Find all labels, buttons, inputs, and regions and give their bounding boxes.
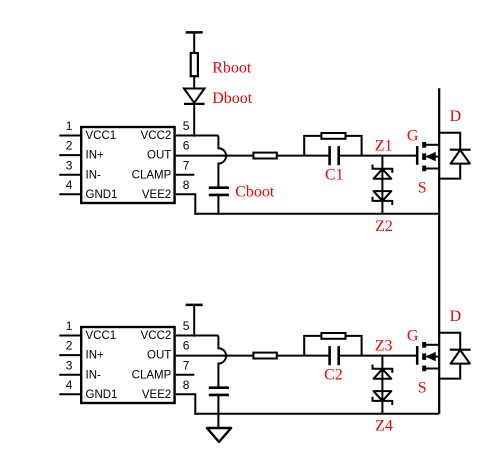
svg-text:5: 5 <box>183 119 190 133</box>
svg-text:Cboot: Cboot <box>235 183 275 200</box>
pin 5 U1 wire <box>176 135 219 137</box>
svg-text:VCC2: VCC2 <box>141 130 172 142</box>
diode D1 (body diode Q1) <box>439 133 470 179</box>
svg-text:G: G <box>407 328 419 345</box>
svg-text:4: 4 <box>66 378 73 392</box>
snubber resistor bracket (bottom) <box>304 333 361 356</box>
supply bar VCC (bottom) <box>186 304 203 307</box>
wire <box>193 76 195 89</box>
diode Dboot <box>184 89 205 104</box>
resistor Rg2 (series gate) <box>253 353 276 359</box>
svg-text:7: 7 <box>183 358 190 372</box>
wire <box>339 355 418 357</box>
wire VCC2 to cap with hop over OUT (bottom) <box>218 336 226 388</box>
pin 6 U1 OUT wire <box>176 155 253 157</box>
svg-text:IN-: IN- <box>86 169 102 181</box>
svg-text:GND1: GND1 <box>86 389 118 401</box>
ground <box>207 414 231 442</box>
svg-text:4: 4 <box>66 178 73 192</box>
svg-text:VEE2: VEE2 <box>142 189 171 201</box>
zener Z1 <box>373 165 393 179</box>
svg-text:VCC2: VCC2 <box>141 330 172 342</box>
svg-text:S: S <box>418 179 427 196</box>
capacitor C1 <box>330 146 339 165</box>
wire source node (top) <box>194 213 439 215</box>
wire source node (bottom) <box>194 413 439 415</box>
svg-text:3: 3 <box>66 158 73 172</box>
svg-text:5: 5 <box>183 319 190 333</box>
pin 3 U1 <box>59 174 80 176</box>
op-amp U1 (gate driver IC) <box>81 127 174 203</box>
svg-text:2: 2 <box>66 139 73 153</box>
pin 4 U2 <box>59 393 80 395</box>
pin 6 U2 OUT wire <box>176 355 253 357</box>
svg-text:8: 8 <box>183 178 190 192</box>
diode D2 (body diode Q2) <box>439 333 470 379</box>
wire <box>217 395 219 414</box>
pin 7 U2 CLAMP stub <box>176 374 195 376</box>
zener Z2 <box>373 191 393 205</box>
zener Z3 <box>373 365 393 379</box>
svg-text:3: 3 <box>66 358 73 372</box>
pin 8 U1 VEE2 wire <box>176 193 196 215</box>
svg-text:Rboot: Rboot <box>212 60 252 77</box>
capacitor Cboot <box>209 188 229 195</box>
svg-text:IN+: IN+ <box>86 350 105 362</box>
pin 5 U2 wire <box>176 335 219 337</box>
svg-text:8: 8 <box>183 378 190 392</box>
wire <box>193 32 195 53</box>
pin 3 U2 <box>59 374 80 376</box>
capacitor C2 <box>330 346 339 365</box>
svg-text:Z1: Z1 <box>375 138 393 155</box>
svg-text:OUT: OUT <box>147 350 171 362</box>
capacitor Cvee (bottom bypass) <box>209 388 229 395</box>
op-amp U2 (gate driver IC) <box>81 327 174 403</box>
transistor Q2 (NMOS) <box>417 342 439 371</box>
wire VCC2 to Cboot with hop over OUT <box>218 136 226 188</box>
svg-text:CLAMP: CLAMP <box>132 169 172 181</box>
svg-text:D: D <box>450 308 462 325</box>
wire <box>193 104 195 137</box>
svg-text:6: 6 <box>183 139 190 153</box>
pin 2 U2 <box>59 354 80 356</box>
wire <box>278 355 330 357</box>
svg-text:VCC1: VCC1 <box>86 130 117 142</box>
svg-text:1: 1 <box>66 119 73 133</box>
pin 2 U1 <box>59 154 80 156</box>
pin 8 U2 VEE2 wire <box>176 393 196 415</box>
pin 1 U1 <box>59 135 80 137</box>
wire zener branch (bottom) <box>381 356 383 414</box>
svg-text:7: 7 <box>183 158 190 172</box>
svg-text:C1: C1 <box>325 167 344 184</box>
svg-text:IN+: IN+ <box>86 150 105 162</box>
svg-text:Z4: Z4 <box>375 418 393 435</box>
svg-text:OUT: OUT <box>147 150 171 162</box>
wire <box>339 155 418 157</box>
pin 7 U1 CLAMP stub <box>176 174 195 176</box>
svg-text:C2: C2 <box>324 367 343 384</box>
svg-text:Z2: Z2 <box>375 218 393 235</box>
wire drain rail (bottom, to top source) <box>438 213 440 414</box>
svg-text:G: G <box>407 128 419 145</box>
svg-text:IN-: IN- <box>86 369 102 381</box>
svg-text:2: 2 <box>66 339 73 353</box>
svg-text:CLAMP: CLAMP <box>132 369 172 381</box>
svg-text:Dboot: Dboot <box>212 90 253 107</box>
svg-text:VEE2: VEE2 <box>142 389 171 401</box>
pin 4 U1 <box>59 193 80 195</box>
wire <box>217 195 219 215</box>
svg-text:Z3: Z3 <box>375 338 393 355</box>
wire zener branch <box>381 156 383 214</box>
wire drain rail (top) <box>438 88 440 214</box>
wire <box>278 155 330 157</box>
supply bar VBoot top <box>186 31 203 34</box>
transistor Q1 (NMOS) <box>417 142 439 171</box>
zener Z4 <box>373 391 393 405</box>
snubber resistor bracket (top) <box>304 133 361 156</box>
resistor Rboot <box>191 53 198 76</box>
svg-text:GND1: GND1 <box>86 189 118 201</box>
wire <box>193 305 195 337</box>
svg-text:6: 6 <box>183 339 190 353</box>
svg-text:D: D <box>450 108 462 125</box>
svg-text:VCC1: VCC1 <box>86 330 117 342</box>
svg-text:S: S <box>418 379 427 396</box>
resistor Rg1 (series gate) <box>253 153 276 159</box>
pin 1 U2 <box>59 335 80 337</box>
svg-text:1: 1 <box>66 319 73 333</box>
